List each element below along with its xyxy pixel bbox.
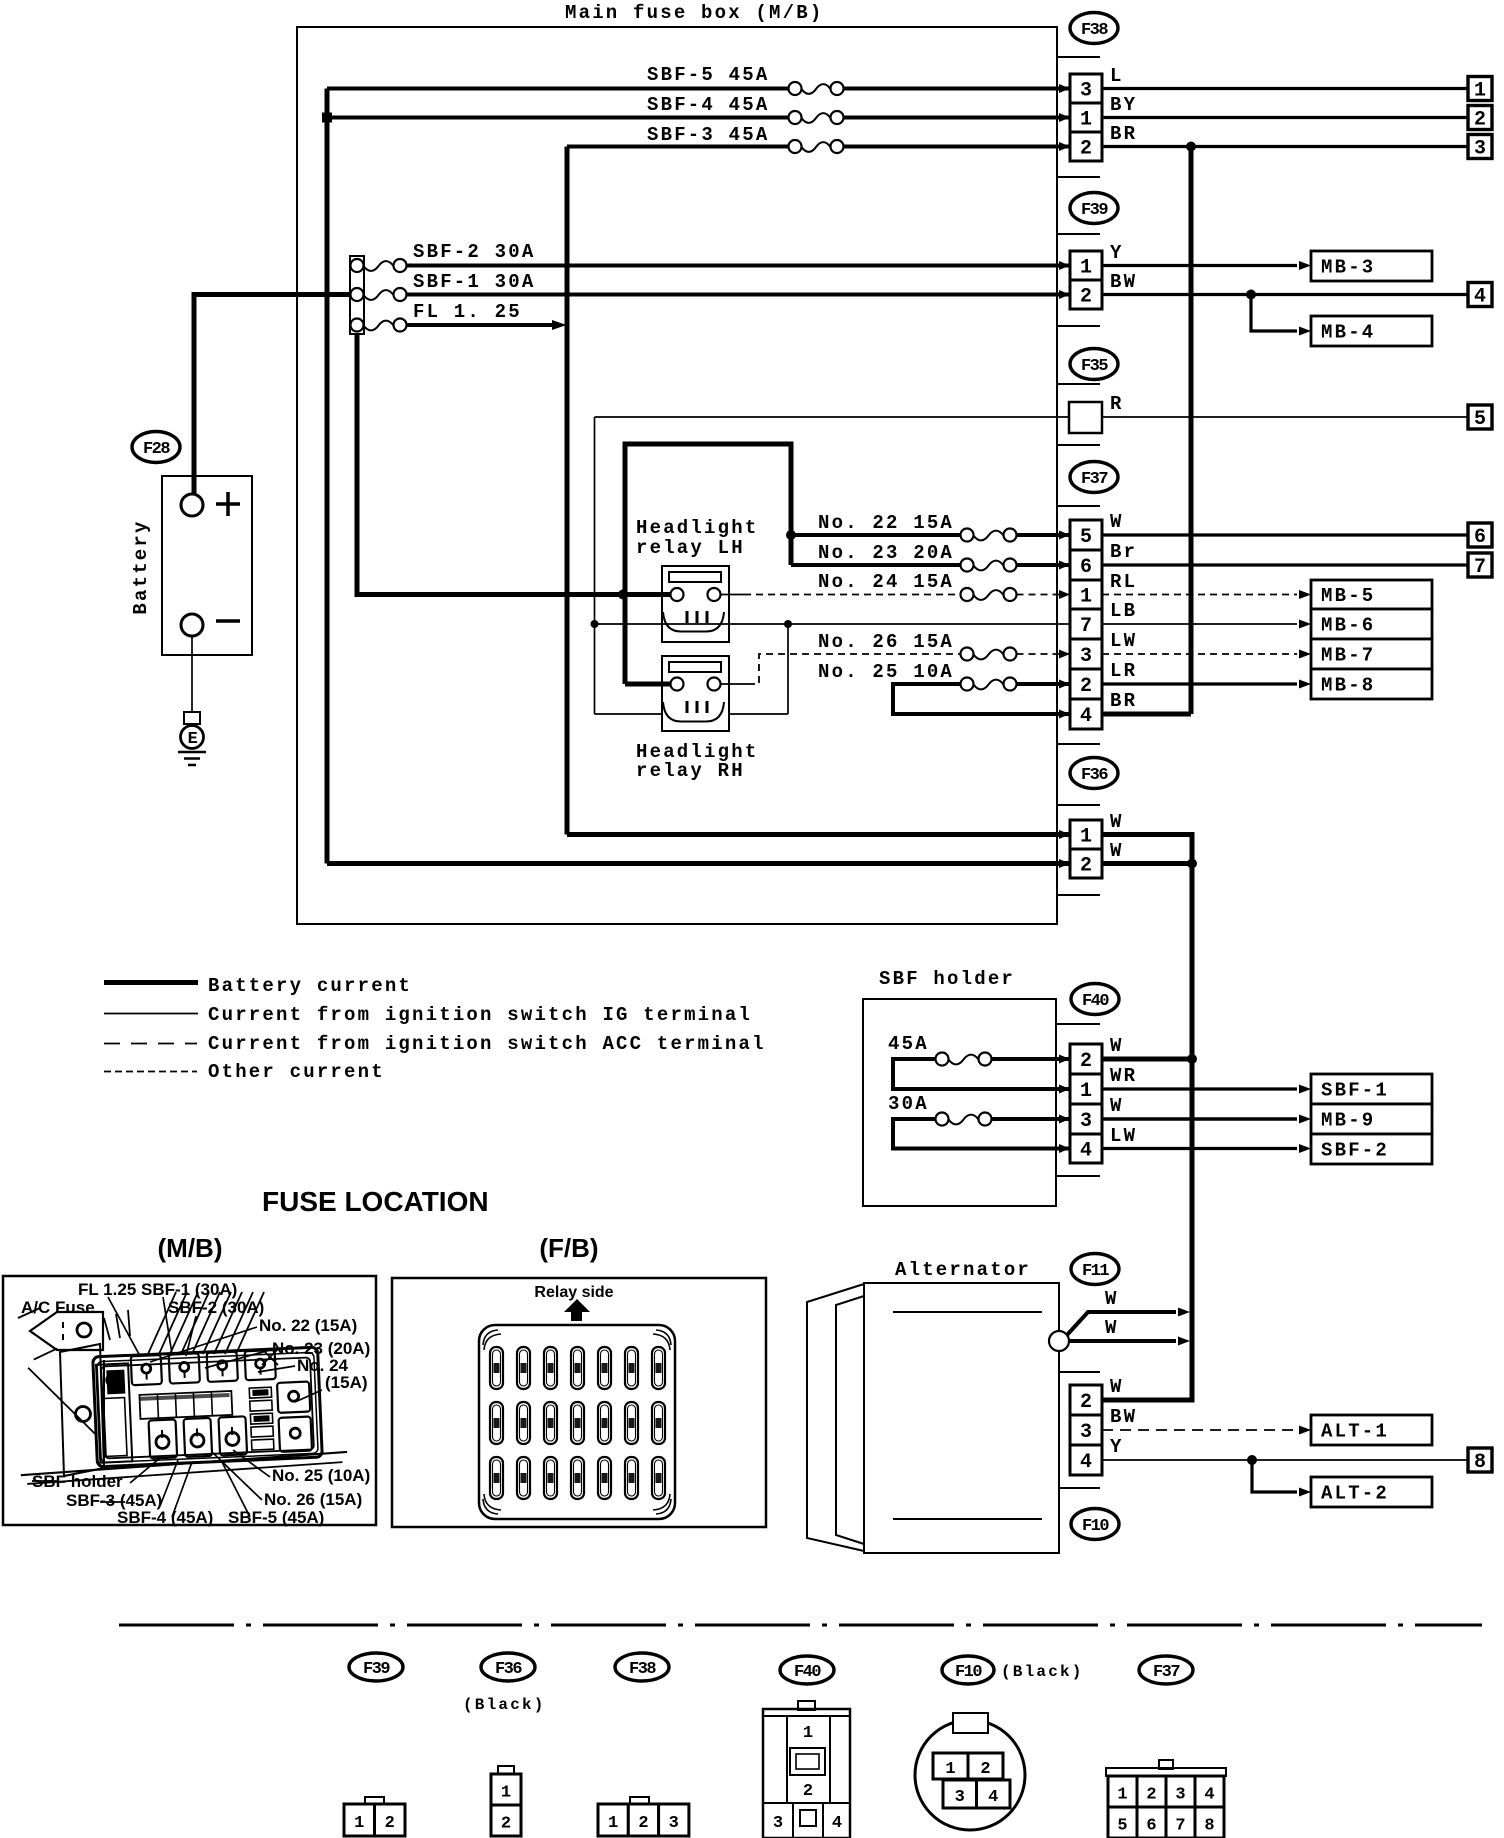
junction FL to SBF-3 vertical — [552, 320, 567, 330]
svg-text:3: 3 — [1080, 80, 1092, 103]
svg-text:3: 3 — [1080, 645, 1092, 668]
svg-text:3: 3 — [773, 1814, 783, 1833]
label W F36-2 — [1110, 840, 1124, 862]
svg-text:1: 1 — [1080, 257, 1092, 280]
svg-text:W: W — [1110, 1376, 1124, 1398]
wire branch to MB-4 — [1251, 295, 1311, 336]
wire ignition vertical to relay coils — [594, 417, 596, 714]
connector F35 oval — [1070, 349, 1118, 380]
terminal 8 — [1468, 1448, 1492, 1474]
svg-text:3: 3 — [669, 1814, 679, 1833]
wire relay RH feed — [625, 682, 671, 687]
node MB-9 — [1311, 1104, 1432, 1134]
svg-text:LW: LW — [1110, 1125, 1137, 1147]
svg-text:No. 25 10A: No. 25 10A — [818, 661, 954, 683]
svg-text:MB-9: MB-9 — [1321, 1110, 1375, 1132]
connector F40 pins 2-1-3-4 — [1070, 1044, 1102, 1163]
wire battery negative — [191, 636, 193, 712]
M/B label SBF holder — [32, 1472, 123, 1491]
svg-text:SBF-5 45A: SBF-5 45A — [647, 64, 769, 86]
svg-text:8: 8 — [1204, 1817, 1214, 1836]
svg-text:F38: F38 — [1081, 21, 1108, 40]
wire Y to MB-3 — [1102, 261, 1311, 270]
svg-text:8: 8 — [1474, 1451, 1486, 1474]
fuse box right-edge connector stubs — [1057, 57, 1100, 895]
svg-text:Headlight: Headlight — [636, 517, 758, 539]
label W F36-1 — [1110, 811, 1124, 833]
M/B label SBF-2 — [168, 1298, 264, 1317]
svg-text:W: W — [1110, 1095, 1124, 1117]
svg-text:No. 25 (10A): No. 25 (10A) — [272, 1466, 370, 1485]
svg-text:3: 3 — [1474, 138, 1486, 161]
connector F38 oval — [1070, 13, 1118, 44]
battery - terminal — [181, 614, 203, 636]
terminal 1 — [1468, 77, 1492, 103]
label LW F40-4 — [1110, 1125, 1137, 1147]
node MB-3 — [1311, 251, 1432, 281]
svg-text:SBF holder: SBF holder — [32, 1472, 123, 1491]
label Y — [1110, 242, 1124, 264]
svg-text:SBF-1 30A: SBF-1 30A — [413, 271, 535, 293]
label W F40-2 — [1110, 1035, 1124, 1057]
ground E symbol — [181, 712, 204, 749]
fuse No.22 wire — [791, 533, 1070, 537]
fuse FL wire — [407, 323, 557, 327]
wire Y to terminal 8 — [1102, 1459, 1468, 1461]
wire F36 outputs to battery vertical — [1102, 835, 1192, 864]
fuse SBF-1 symbol — [351, 288, 407, 301]
junction relay feed crossing — [618, 590, 628, 600]
svg-text:LB: LB — [1110, 600, 1137, 622]
fuse 45A label — [888, 1033, 929, 1055]
svg-text:F10: F10 — [955, 1663, 982, 1682]
wire W into F36 pin2 — [327, 861, 1070, 866]
F/B fuse panel outline — [479, 1325, 675, 1519]
svg-text:1: 1 — [945, 1760, 955, 1779]
svg-text:(15A): (15A) — [325, 1373, 368, 1392]
svg-text:F28: F28 — [143, 440, 170, 459]
label RL — [1110, 571, 1137, 593]
wire relay feed loop — [625, 444, 791, 684]
svg-text:Current from ignition switch A: Current from ignition switch ACC termina… — [208, 1033, 766, 1055]
M/B label SBF-5 — [228, 1508, 324, 1527]
svg-text:F36: F36 — [1081, 766, 1108, 785]
fuse No.24 symbol — [961, 588, 1017, 601]
fuse location title — [262, 1186, 489, 1217]
wire coil LB horizontal — [595, 623, 1071, 625]
svg-text:4: 4 — [1474, 286, 1486, 309]
fuse SBF-3 symbol — [789, 140, 844, 153]
fuse No.23 wire — [791, 563, 1070, 567]
wire W into F36 pin1 — [567, 832, 1070, 837]
M/B label No.26 — [264, 1490, 362, 1509]
svg-text:4: 4 — [832, 1814, 842, 1833]
main fuse box (M/B) outline — [297, 27, 1057, 924]
svg-text:(F/B): (F/B) — [539, 1233, 598, 1263]
wire LB to MB-6 — [1102, 620, 1311, 629]
svg-text:3: 3 — [955, 1788, 965, 1807]
connector F35 square pin — [1069, 402, 1102, 433]
svg-text:1: 1 — [501, 1784, 511, 1803]
terminal 5 — [1468, 405, 1492, 431]
bottom F39 connector — [344, 1797, 405, 1836]
fuse No.24 label — [818, 571, 954, 593]
svg-text:ALT-2: ALT-2 — [1321, 1483, 1389, 1505]
node ALT-2 — [1311, 1477, 1432, 1507]
wire W F11-2 — [1102, 1398, 1192, 1400]
svg-text:1: 1 — [1474, 80, 1486, 103]
svg-text:MB-8: MB-8 — [1321, 675, 1375, 697]
SBF holder label — [879, 968, 1015, 990]
svg-text:MB-4: MB-4 — [1321, 322, 1375, 344]
svg-text:Y: Y — [1110, 1436, 1124, 1458]
svg-text:Relay side: Relay side — [534, 1284, 613, 1301]
wire BR to terminal 3 — [1102, 145, 1468, 148]
svg-text:SBF-5 (45A): SBF-5 (45A) — [228, 1508, 324, 1527]
M/B label No.24 — [297, 1356, 368, 1392]
svg-text:3: 3 — [1175, 1786, 1185, 1805]
svg-text:FL 1. 25: FL 1. 25 — [413, 301, 522, 323]
svg-text:(M/B): (M/B) — [158, 1233, 223, 1263]
SBF holder connector stubs — [1056, 1024, 1100, 1176]
fuse SBF-1 wire — [407, 293, 1071, 297]
M/B drawing: A/C fuse holder — [18, 1292, 264, 1476]
M/B label No.25 — [272, 1466, 370, 1485]
terminal 7 — [1468, 553, 1492, 579]
wire RL dashed to MB-5 — [1102, 590, 1311, 599]
fuse bus bar — [350, 256, 364, 334]
svg-text:LR: LR — [1110, 660, 1137, 682]
fuse SBF-5 symbol — [789, 82, 844, 95]
svg-text:2: 2 — [501, 1815, 511, 1834]
svg-text:6: 6 — [1474, 526, 1486, 549]
svg-text:No. 23 20A: No. 23 20A — [818, 542, 954, 564]
fuse No.22 label — [818, 512, 954, 534]
wire L to terminal 1 — [1102, 87, 1468, 90]
svg-text:3: 3 — [1080, 1110, 1092, 1133]
fuse SBF-2 symbol — [351, 259, 407, 272]
terminal 4 — [1468, 283, 1492, 309]
wire LW dashed to MB-7 — [1102, 650, 1311, 659]
wire BY to terminal 2 — [1102, 116, 1468, 119]
headlight relay RH body — [662, 656, 729, 731]
M/B drawing: leader lines — [32, 1297, 322, 1517]
svg-text:Alternator: Alternator — [895, 1259, 1031, 1281]
alternator B terminal — [1049, 1331, 1069, 1351]
fuse 30A symbol — [936, 1113, 992, 1126]
legend battery current — [104, 975, 412, 997]
bottom F38 oval — [615, 1653, 669, 1681]
svg-text:7: 7 — [1474, 556, 1486, 579]
svg-text:2: 2 — [980, 1760, 990, 1779]
wire BW to terminal 4 — [1102, 293, 1468, 296]
battery box — [162, 476, 252, 655]
bottom divider line — [119, 1624, 1482, 1627]
terminal 3 — [1468, 135, 1492, 161]
connector F36 oval — [1070, 758, 1118, 789]
ground symbol — [178, 752, 206, 765]
svg-text:MB-5: MB-5 — [1321, 585, 1375, 607]
svg-text:RL: RL — [1110, 571, 1137, 593]
node SBF-1 — [1311, 1074, 1432, 1104]
svg-text:R: R — [1110, 393, 1124, 415]
svg-text:SBF-2: SBF-2 — [1321, 1140, 1389, 1162]
fuse No.25 label — [818, 661, 954, 683]
svg-text:4: 4 — [1080, 1140, 1092, 1163]
label BW — [1110, 271, 1137, 293]
alternator stator lines — [893, 1312, 1042, 1519]
M/B label SBF-4 — [117, 1508, 213, 1527]
wire W F40-3 to MB-9 — [1102, 1115, 1311, 1124]
fuse SBF-4 symbol — [789, 111, 844, 124]
M/B label No.23 — [272, 1339, 370, 1358]
svg-text:F39: F39 — [1081, 201, 1108, 220]
svg-text:F35: F35 — [1081, 357, 1108, 376]
label BY — [1110, 94, 1137, 116]
svg-text:1: 1 — [1080, 586, 1092, 609]
F/B arrow — [564, 1299, 590, 1321]
node MB-7 — [1311, 639, 1432, 669]
junction F36 W — [1187, 859, 1197, 869]
connector F39 oval — [1070, 193, 1118, 224]
svg-text:Br: Br — [1110, 541, 1137, 563]
svg-text:2: 2 — [385, 1814, 395, 1833]
svg-text:L: L — [1110, 65, 1124, 87]
fuse FL symbol — [351, 319, 407, 332]
connector F38 pins 3-1-2 — [1070, 74, 1102, 161]
label L — [1110, 65, 1124, 87]
bottom F40 oval — [780, 1656, 834, 1684]
svg-text:No. 22 15A: No. 22 15A — [818, 512, 954, 534]
label BR — [1110, 123, 1137, 145]
legend other current — [104, 1061, 385, 1083]
svg-text:No. 24 15A: No. 24 15A — [818, 571, 954, 593]
svg-text:relay RH: relay RH — [636, 760, 745, 782]
junction SBF-4/SBF-5 vertical — [322, 113, 332, 123]
junction coil wire right — [784, 620, 792, 628]
svg-text:(Black): (Black) — [463, 1696, 546, 1714]
svg-text:4: 4 — [1080, 1451, 1092, 1474]
fuse SBF-5 wire — [327, 87, 1070, 91]
svg-text:SBF-2 (30A): SBF-2 (30A) — [168, 1298, 264, 1317]
svg-text:1: 1 — [1080, 826, 1092, 849]
svg-text:F38: F38 — [629, 1660, 656, 1679]
svg-text:No. 26 (15A): No. 26 (15A) — [264, 1490, 362, 1509]
svg-text:6: 6 — [1146, 1817, 1156, 1836]
svg-text:Battery: Battery — [130, 519, 152, 614]
svg-text:1: 1 — [1080, 109, 1092, 132]
wire W F40-2 to vertical — [1102, 1057, 1192, 1062]
bottom F10 oval — [942, 1656, 994, 1684]
label W pin5 — [1110, 511, 1124, 533]
svg-text:BW: BW — [1110, 1406, 1137, 1428]
svg-text:Y: Y — [1110, 242, 1124, 264]
M/B label No.22 — [259, 1316, 357, 1335]
svg-text:Main fuse box (M/B): Main fuse box (M/B) — [565, 2, 823, 24]
junction BR battery vertical — [1186, 142, 1196, 152]
wire coil RH riser — [729, 624, 788, 714]
svg-text:SBF-4 45A: SBF-4 45A — [647, 94, 769, 116]
fuse 30A label — [888, 1093, 929, 1115]
svg-text:A/C Fuse: A/C Fuse — [21, 1298, 95, 1317]
label BR pin4 — [1110, 690, 1137, 712]
svg-text:SBF-2 30A: SBF-2 30A — [413, 241, 535, 263]
svg-text:W: W — [1110, 840, 1124, 862]
M/B caption — [158, 1233, 223, 1263]
wire SBF-3 feeder vertical — [565, 147, 570, 835]
svg-text:7: 7 — [1080, 615, 1092, 638]
battery + sign — [216, 492, 240, 516]
svg-text:BY: BY — [1110, 94, 1137, 116]
wire SBF-5/4 feeder vertical — [325, 89, 330, 864]
bottom F36 oval — [481, 1653, 535, 1681]
connector F36 pins 1-2 — [1070, 820, 1102, 878]
legend IG current — [104, 1004, 752, 1026]
svg-text:(Black): (Black) — [1001, 1663, 1084, 1681]
headlight relay LH body — [662, 566, 729, 642]
svg-text:4: 4 — [1204, 1786, 1214, 1805]
wire Br to terminal 7 — [1102, 563, 1468, 566]
svg-text:4: 4 — [988, 1788, 998, 1807]
wire RH coil left — [595, 713, 663, 715]
wire R to terminal 5 — [1102, 416, 1468, 418]
fuse No.23 label — [818, 542, 954, 564]
node MB-8 — [1311, 669, 1432, 699]
fuse No.25 symbol — [961, 678, 1017, 691]
svg-text:F39: F39 — [363, 1660, 390, 1679]
label W F40-3 — [1110, 1095, 1124, 1117]
svg-text:W: W — [1110, 1035, 1124, 1057]
junction coil wire left — [591, 620, 599, 628]
F/B caption — [539, 1233, 598, 1263]
svg-text:SBF-4 (45A): SBF-4 (45A) — [117, 1508, 213, 1527]
svg-text:BW: BW — [1110, 271, 1137, 293]
svg-text:1: 1 — [354, 1814, 364, 1833]
bottom F10 connector — [915, 1713, 1025, 1830]
SBF holder box — [863, 999, 1056, 1206]
battery label — [130, 519, 152, 614]
bottom F37 oval — [1139, 1656, 1193, 1684]
wire battery current vertical to F37 pin4 — [1189, 147, 1194, 715]
label LR — [1110, 660, 1137, 682]
M/B label SBF-3 — [66, 1491, 162, 1510]
label W F11-2 — [1110, 1376, 1124, 1398]
svg-text:relay LH: relay LH — [636, 537, 745, 559]
M/B label FL/SBF-1 — [78, 1280, 237, 1299]
svg-text:Other current: Other current — [208, 1061, 385, 1083]
fuse SBF-2 30A label — [413, 241, 535, 263]
connector F37 oval — [1070, 462, 1118, 493]
fusible link FL 1.25 label — [413, 301, 522, 323]
junction relay feed at No.22 — [786, 530, 796, 540]
fuse SBF-5 45A label — [647, 64, 769, 86]
svg-text:BR: BR — [1110, 123, 1137, 145]
M/B drawing: fuse box body — [15, 1336, 348, 1484]
svg-text:1: 1 — [1080, 1080, 1092, 1103]
node MB-4 — [1311, 316, 1432, 346]
wire battery positive feed — [194, 295, 350, 495]
node MB-6 — [1311, 609, 1432, 639]
connector F39 pins 1-2 — [1070, 251, 1102, 309]
svg-text:E: E — [188, 730, 198, 749]
fuse 30A wire loop — [893, 1119, 1070, 1149]
svg-text:4: 4 — [1080, 705, 1092, 728]
svg-text:ALT-1: ALT-1 — [1321, 1421, 1389, 1443]
alternator connector stubs — [1059, 1372, 1100, 1488]
svg-text:2: 2 — [1080, 138, 1092, 161]
wire alternator W upper — [1067, 1288, 1190, 1335]
svg-text:F40: F40 — [1082, 992, 1109, 1011]
battery + terminal — [181, 494, 203, 516]
main fuse box label — [565, 2, 823, 24]
battery - sign — [216, 619, 240, 623]
F/B panel box — [392, 1278, 766, 1527]
label R — [1110, 393, 1124, 415]
F/B fuse grid — [490, 1347, 665, 1499]
svg-text:No. 22 (15A): No. 22 (15A) — [259, 1316, 357, 1335]
node ALT-1 — [1311, 1415, 1432, 1445]
junction W F40-2 — [1187, 1054, 1197, 1064]
bottom F36 connector — [491, 1766, 521, 1836]
headlight relay LH label — [636, 517, 758, 559]
wire WR to SBF-1 — [1102, 1085, 1311, 1094]
wire No.25 loop — [893, 684, 1070, 714]
connector F40 oval — [1071, 984, 1119, 1015]
alternator label — [895, 1259, 1031, 1281]
label LW — [1110, 630, 1137, 652]
wire BR pin4 to battery vertical — [1102, 712, 1191, 717]
connector F10 oval — [1071, 1509, 1119, 1540]
connector F37 pins 5-6-1-7-3-2-4 — [1070, 520, 1102, 729]
wire BW dashed to ALT-1 — [1102, 1426, 1311, 1435]
label LB — [1110, 600, 1137, 622]
svg-text:FL 1.25 SBF-1 (30A): FL 1.25 SBF-1 (30A) — [78, 1280, 237, 1299]
svg-text:2: 2 — [803, 1782, 813, 1801]
svg-text:F36: F36 — [495, 1660, 522, 1679]
svg-text:Battery current: Battery current — [208, 975, 412, 997]
svg-text:MB-3: MB-3 — [1321, 257, 1375, 279]
svg-text:2: 2 — [1080, 1050, 1092, 1073]
svg-text:BR: BR — [1110, 690, 1137, 712]
label WR — [1110, 1065, 1137, 1087]
fuse No.26 symbol — [961, 648, 1017, 661]
wire branch to ALT-2 — [1252, 1460, 1311, 1497]
fuse 45A wire loop — [893, 1059, 1070, 1089]
wire R left segment — [595, 416, 1070, 418]
svg-text:W: W — [1110, 811, 1124, 833]
alternator body — [864, 1283, 1059, 1553]
bottom F38 connector — [598, 1797, 689, 1836]
fuse SBF-1 30A label — [413, 271, 535, 293]
legend ACC current — [104, 1033, 766, 1055]
svg-text:F10: F10 — [1082, 1517, 1109, 1536]
junction Y branch — [1247, 1455, 1257, 1465]
svg-text:45A: 45A — [888, 1033, 929, 1055]
svg-text:W: W — [1105, 1288, 1119, 1310]
svg-text:SBF-1: SBF-1 — [1321, 1080, 1389, 1102]
svg-text:2: 2 — [1080, 675, 1092, 698]
svg-text:3: 3 — [1080, 1421, 1092, 1444]
wire No.26 dashed — [721, 654, 1071, 684]
fuse No.23 symbol — [961, 559, 1017, 572]
wire bus to relay feed — [357, 334, 671, 595]
headlight relay RH label — [636, 741, 758, 782]
label Br pin6 — [1110, 541, 1137, 563]
svg-text:5: 5 — [1117, 1817, 1127, 1836]
fuse SBF-2 wire — [407, 264, 1071, 268]
M/B panel box — [3, 1276, 376, 1525]
svg-text:2: 2 — [1146, 1786, 1156, 1805]
